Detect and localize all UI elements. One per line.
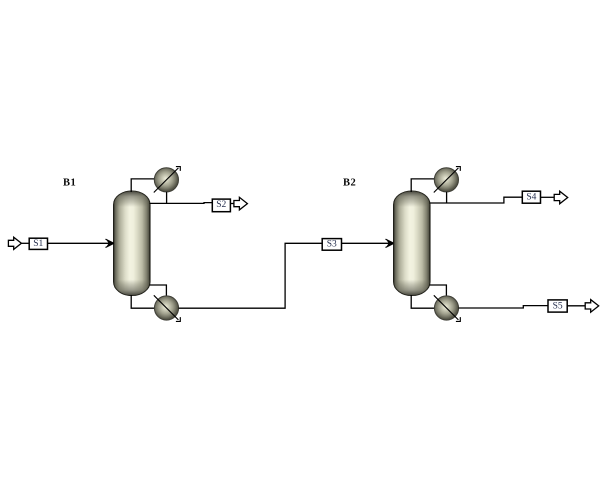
svg-text:S5: S5 <box>553 301 563 311</box>
wire S2 product line <box>150 202 213 205</box>
stream S5 label box <box>548 300 567 312</box>
stream S1 label box <box>29 238 47 249</box>
svg-text:B2: B2 <box>343 178 356 189</box>
stream S2 label box <box>212 199 230 212</box>
stream S2 outlet arrow <box>234 197 248 210</box>
arrowhead into B1 <box>106 239 114 247</box>
condenser B2 <box>434 167 461 193</box>
stream S4 outlet arrow <box>554 191 568 204</box>
svg-text:B1: B1 <box>63 178 76 189</box>
wire B1 reboiler inlet <box>150 285 167 297</box>
stream S5 outlet arrow <box>585 300 599 313</box>
svg-text:S1: S1 <box>33 239 43 249</box>
wire B1 bottoms to reboiler <box>131 295 154 308</box>
wire condenser B1 outlet drop <box>166 192 168 204</box>
wire S5 bottoms product line <box>459 306 548 308</box>
stream S1 source arrow <box>8 237 21 249</box>
svg-text:S3: S3 <box>327 240 337 250</box>
svg-text:S2: S2 <box>216 200 226 210</box>
wire S1 from source arrow to label <box>21 242 29 244</box>
wire S2 connector to outlet arrow <box>230 203 234 205</box>
wire S5 connector to outlet arrow <box>567 305 585 307</box>
wire S4 product line <box>430 197 523 203</box>
condenser B1 <box>154 167 181 193</box>
wire S1 feed line to B1 <box>48 242 111 244</box>
reboiler B2 <box>434 295 461 321</box>
wire S4 connector to outlet arrow <box>541 196 555 198</box>
reboiler B1 <box>154 295 181 321</box>
svg-text:S4: S4 <box>526 193 536 203</box>
wire B2 bottoms to reboiler <box>411 295 434 308</box>
column B1 <box>114 191 150 296</box>
wire B2 overhead vapor line <box>411 179 434 192</box>
wire B2 reboiler inlet <box>430 285 447 297</box>
column B2 <box>394 191 430 296</box>
arrowhead into B2 <box>386 239 394 247</box>
stream S3 label box <box>322 239 341 251</box>
wire B1 overhead vapor line <box>131 179 154 192</box>
stream S4 label box <box>522 191 540 203</box>
wire S3 bottoms line from reboiler B1 <box>179 243 323 308</box>
wire S3 to B2 <box>342 242 391 244</box>
wire condenser B2 outlet drop <box>446 192 448 203</box>
